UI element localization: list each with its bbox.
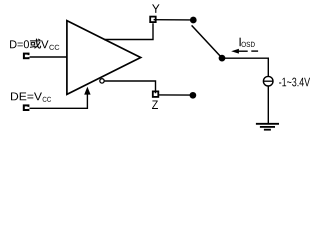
node Y dot	[190, 17, 197, 24]
current direction arrow IOSD	[231, 49, 258, 54]
node Z dot	[190, 92, 197, 99]
label Y	[152, 4, 159, 13]
label IOSD	[240, 38, 255, 47]
terminal Z	[153, 91, 159, 97]
wire pole to source	[222, 58, 268, 76]
terminal D	[23, 53, 30, 60]
driver op-amp style triangle U1	[67, 21, 141, 95]
terminal DE	[23, 104, 30, 111]
label DE=VCC	[11, 92, 51, 101]
label Z	[152, 100, 158, 109]
inverting bubble on Z output	[100, 79, 104, 83]
switch blade	[192, 25, 222, 58]
wire Y terminal to node	[154, 19, 192, 21]
terminal Y	[150, 17, 156, 23]
voltage source V1	[263, 76, 273, 86]
wire Z output from bubble	[105, 81, 156, 93]
wire Z terminal to node	[158, 94, 193, 96]
arrowhead DE enable input	[84, 87, 90, 95]
wire Y output from triangle top edge	[104, 23, 153, 39]
label D=0 or VCC	[10, 39, 59, 50]
ground	[256, 124, 279, 130]
wire source to ground	[267, 86, 269, 123]
wire D input	[30, 56, 67, 58]
label -1~3.4V	[279, 78, 310, 87]
switch pole dot	[219, 55, 226, 62]
wire DE input	[30, 94, 88, 108]
